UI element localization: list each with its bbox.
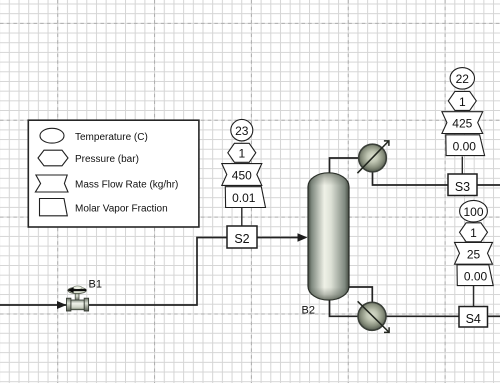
svg-text:Molar Vapor Fraction: Molar Vapor Fraction [75, 203, 168, 214]
svg-text:B1: B1 [89, 279, 102, 291]
svg-text:Pressure (bar): Pressure (bar) [75, 154, 139, 165]
svg-text:25: 25 [467, 247, 481, 261]
svg-text:Mass Flow Rate (kg/hr): Mass Flow Rate (kg/hr) [75, 180, 178, 191]
svg-text:22: 22 [456, 72, 470, 86]
svg-text:S3: S3 [455, 180, 470, 194]
svg-text:425: 425 [452, 117, 472, 131]
svg-text:450: 450 [232, 169, 252, 183]
svg-text:0.01: 0.01 [232, 191, 256, 205]
svg-text:1: 1 [459, 95, 466, 109]
svg-text:0.00: 0.00 [464, 269, 488, 283]
svg-text:1: 1 [470, 226, 477, 240]
svg-text:0.00: 0.00 [453, 139, 477, 153]
svg-text:S2: S2 [234, 232, 249, 246]
svg-text:B2: B2 [302, 305, 315, 317]
svg-text:23: 23 [235, 124, 249, 138]
svg-text:100: 100 [463, 205, 483, 219]
svg-text:S4: S4 [466, 312, 481, 326]
svg-text:1: 1 [238, 147, 245, 161]
svg-text:Temperature (C): Temperature (C) [75, 132, 148, 143]
